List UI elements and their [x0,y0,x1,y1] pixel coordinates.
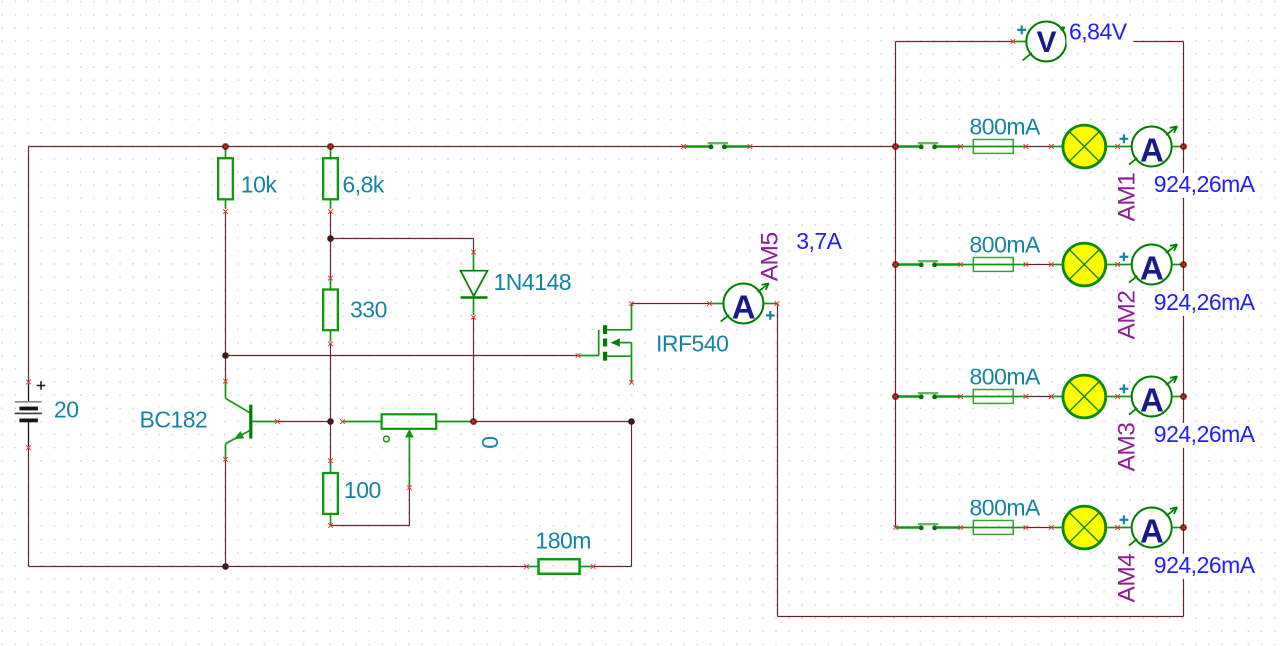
svg-text:AM5: AM5 [757,232,784,281]
svg-text:AM1: AM1 [1113,173,1140,222]
svg-text:6,84V: 6,84V [1069,19,1128,45]
svg-text:AM3: AM3 [1113,423,1140,472]
svg-text:924,26mA: 924,26mA [1154,289,1256,315]
svg-text:A: A [1140,513,1163,550]
svg-text:10k: 10k [241,172,278,198]
svg-text:180m: 180m [535,528,591,554]
svg-text:924,26mA: 924,26mA [1154,421,1256,447]
svg-text:1N4148: 1N4148 [494,269,572,295]
svg-text:330: 330 [350,296,387,322]
svg-text:AM2: AM2 [1113,291,1140,340]
svg-text:3,7A: 3,7A [796,228,842,254]
svg-text:A: A [732,289,755,326]
svg-text:IRF540: IRF540 [656,330,728,356]
svg-text:BC182: BC182 [140,407,208,433]
svg-text:6,8k: 6,8k [342,172,384,198]
svg-text:A: A [1140,132,1163,169]
svg-text:AM4: AM4 [1113,554,1140,603]
svg-text:0: 0 [477,437,503,449]
svg-text:A: A [1140,250,1163,287]
svg-text:100: 100 [344,477,381,503]
svg-text:924,26mA: 924,26mA [1154,171,1256,197]
svg-text:924,26mA: 924,26mA [1154,552,1256,578]
svg-text:20: 20 [54,396,79,422]
svg-text:V: V [1037,26,1057,59]
svg-text:A: A [1140,382,1163,419]
